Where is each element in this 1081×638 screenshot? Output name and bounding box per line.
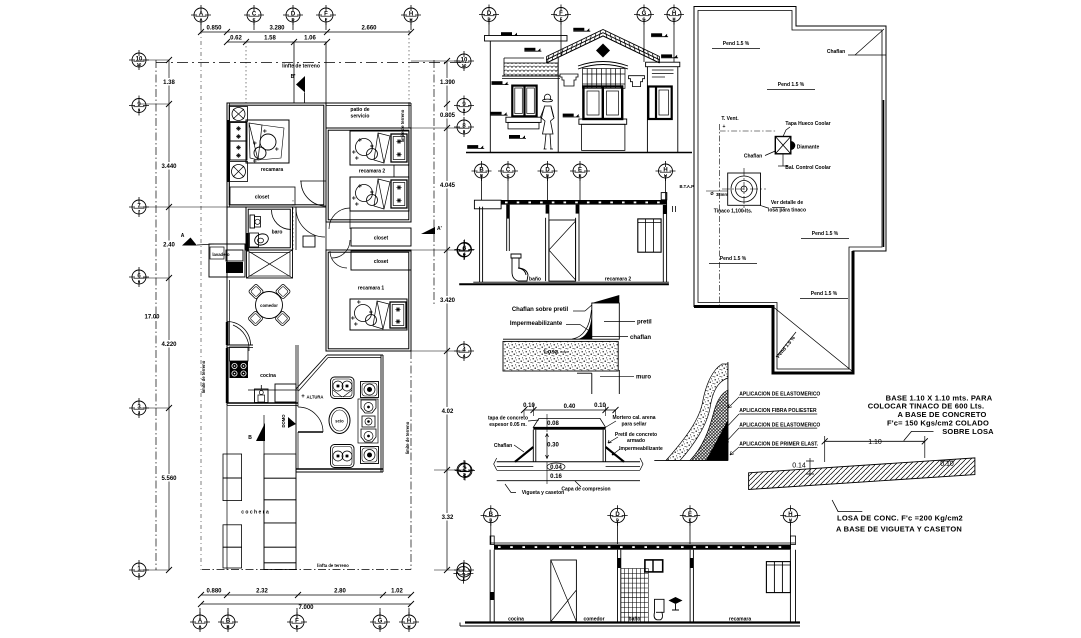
comedor table <box>256 292 283 319</box>
plant symbol <box>669 597 683 604</box>
svg-text:comedor: comedor <box>260 303 278 308</box>
svg-text:3.440: 3.440 <box>161 164 177 170</box>
svg-text:A': A' <box>437 226 442 232</box>
door arc comedor <box>227 322 251 346</box>
waterproofing detail group <box>654 362 994 533</box>
svg-text:Diamante: Diamante <box>797 145 820 151</box>
pretil wall <box>592 303 620 339</box>
svg-text:10: 10 <box>462 63 467 68</box>
svg-text:A: A <box>199 17 202 22</box>
grid axis F leader <box>325 42 327 103</box>
bathroom2 chamfer wall <box>296 355 327 389</box>
svg-text:17.00: 17.00 <box>144 315 160 321</box>
right wall <box>789 550 791 622</box>
cornice tiles left block <box>504 63 558 76</box>
bath (baro) walls <box>246 207 293 250</box>
grid bubble bottom H <box>399 612 419 632</box>
svg-text:Tinaco 1,100 lts.: Tinaco 1,100 lts. <box>714 209 753 215</box>
svg-text:APLICACION DE ELASTOMERICO: APLICACION DE ELASTOMERICO <box>739 392 820 398</box>
hall door arc 1 <box>329 208 350 229</box>
door arc recamara <box>301 181 326 206</box>
bath door arc <box>272 210 292 230</box>
svg-text:1.06: 1.06 <box>304 36 316 42</box>
left block wall <box>489 41 491 152</box>
base line <box>654 459 728 461</box>
svg-text:D: D <box>291 17 294 22</box>
section arrow A <box>182 238 197 246</box>
section bubble D <box>538 161 558 181</box>
svg-text:Mortero cal. arena: Mortero cal. arena <box>612 415 655 421</box>
property line right lower <box>410 351 412 570</box>
svg-text:Impermeabilizante: Impermeabilizante <box>510 321 563 327</box>
svg-text:1.58: 1.58 <box>264 36 276 42</box>
roof diagonal <box>774 308 852 372</box>
leader losa <box>832 500 862 512</box>
window section <box>638 219 661 252</box>
nightstand <box>394 165 409 177</box>
svg-text:4.220: 4.220 <box>161 342 177 348</box>
outer wall left (x=227) <box>226 103 228 405</box>
svg-text:scio: scio <box>335 419 344 424</box>
bottom overall dimension 7.000 <box>201 603 411 605</box>
grid bubble right 6 <box>454 240 474 260</box>
svg-text:0.880: 0.880 <box>206 589 222 595</box>
svg-text:armado: armado <box>627 438 645 444</box>
front elevation group <box>466 5 692 153</box>
svg-text:limite de terreno: limite de terreno <box>201 360 206 393</box>
svg-text:0.10: 0.10 <box>594 403 606 409</box>
svg-text:3.32: 3.32 <box>442 515 454 521</box>
ground line <box>466 152 692 154</box>
hall square symbol <box>303 236 315 247</box>
svg-text:3.420: 3.420 <box>440 298 456 304</box>
bidet b2 <box>362 416 375 427</box>
svg-text:B: B <box>480 173 483 178</box>
recamara block walls <box>227 103 326 207</box>
bed r2b <box>350 177 409 211</box>
svg-text:E: E <box>689 518 692 523</box>
svg-text:B: B <box>226 624 229 629</box>
svg-text:0.08: 0.08 <box>547 421 559 427</box>
grid bubble left 3 <box>129 398 149 418</box>
svg-text:closet: closet <box>255 195 270 201</box>
top dim line <box>524 409 616 411</box>
bottom section group <box>453 505 800 626</box>
svg-text:chaflan: chaflan <box>630 335 651 341</box>
grid axis H leader <box>408 30 410 103</box>
svg-text:Pend 1.5 %: Pend 1.5 % <box>720 256 747 262</box>
svg-text:C: C <box>506 173 509 178</box>
property line top (limite de terreno) <box>156 62 466 64</box>
door panel <box>549 220 576 281</box>
svg-text:Vigueta y caseton: Vigueta y caseton <box>522 490 564 496</box>
svg-text:APLICACION FIBRA POLIESTER: APLICACION FIBRA POLIESTER <box>739 408 817 414</box>
shower X <box>249 253 290 277</box>
break marks <box>494 458 643 470</box>
grid bubble bottom G <box>370 612 390 632</box>
svg-text:A: A <box>181 233 185 239</box>
tick leader lines <box>139 59 169 61</box>
svg-text:comedor: comedor <box>583 617 604 623</box>
svg-text:closet: closet <box>374 259 389 265</box>
svg-text:B: B <box>489 518 492 523</box>
section bubble H <box>656 161 676 181</box>
washer sq top <box>361 382 379 398</box>
svg-text:G: G <box>378 624 381 629</box>
dresser 2 <box>230 141 247 160</box>
grid bubble right 2 <box>454 460 474 480</box>
grid axis D leader <box>293 42 295 103</box>
roof top line <box>503 338 592 340</box>
grid bubble top F <box>316 5 336 25</box>
svg-text:APLICACION DE ELASTOMERICO: APLICACION DE ELASTOMERICO <box>739 422 820 428</box>
recamara 1 block walls <box>326 250 411 351</box>
grid bubble left 1 <box>129 560 149 580</box>
svg-text:cocina: cocina <box>508 617 524 623</box>
svg-text:B: B <box>248 435 252 441</box>
floor plan group <box>129 5 474 632</box>
toilet profile <box>511 254 528 281</box>
roof plan group <box>679 7 886 374</box>
elevation bubble H <box>664 5 684 25</box>
top dimension chain 2 <box>227 41 327 43</box>
window right <box>766 562 790 593</box>
svg-text:APLICACION DE PRIMER ELAST.: APLICACION DE PRIMER ELAST. <box>739 442 819 448</box>
section A-A group <box>455 161 676 284</box>
svg-text:DOMO: DOMO <box>281 414 286 428</box>
svg-text:38mm: 38mm <box>716 192 728 197</box>
tinaco square <box>728 173 761 205</box>
svg-text:E: E <box>579 173 582 178</box>
property line right <box>433 60 435 305</box>
washer dark <box>226 250 243 261</box>
bed r1 <box>350 299 407 330</box>
svg-text:+: + <box>723 124 726 130</box>
svg-text:0.62: 0.62 <box>230 36 242 42</box>
svg-text:Losa: Losa <box>544 350 559 356</box>
svg-text:Pend 1.5 %: Pend 1.5 % <box>811 291 838 297</box>
detail base tinaco group <box>455 403 663 496</box>
gable roof <box>547 30 660 63</box>
bottom dimension chain <box>201 594 411 596</box>
window center <box>583 87 622 120</box>
pipe marks <box>672 206 674 212</box>
svg-text:Chaflan: Chaflan <box>827 49 845 55</box>
svg-text:H: H <box>664 173 667 178</box>
svg-text:losa para tinaco: losa para tinaco <box>768 208 806 214</box>
grid bubble left 6 <box>129 267 149 287</box>
tinaco circles <box>731 176 757 202</box>
bottom section bubble E <box>680 505 700 525</box>
svg-text:tapa de concreto: tapa de concreto <box>488 416 528 422</box>
grid bubble top A <box>191 5 211 25</box>
svg-text:cocina: cocina <box>260 373 276 379</box>
svg-text:G: G <box>642 17 645 22</box>
lavabo double bottom <box>331 445 355 468</box>
muro below <box>591 373 593 394</box>
lavabo double top <box>331 377 355 399</box>
closet 2 walls <box>351 251 411 270</box>
detail chaflan sobre pretil group <box>503 295 652 394</box>
svg-text:F: F <box>325 17 328 22</box>
property line left <box>155 60 157 570</box>
svg-text:patio de: patio de <box>350 107 369 113</box>
toilet b2 second <box>361 429 376 442</box>
roof thick edges <box>694 251 853 373</box>
svg-text:2.660: 2.660 <box>361 26 377 32</box>
tub oval <box>329 408 350 434</box>
svg-text:F: F <box>296 624 299 629</box>
grid bubble right 4 <box>454 341 474 361</box>
tile grid center <box>583 69 626 89</box>
corbel right <box>629 76 645 87</box>
recamara 2 block walls <box>326 128 411 222</box>
svg-text:LOSA DE CONC. F'c =200 Kg/cm2: LOSA DE CONC. F'c =200 Kg/cm2 <box>837 513 963 522</box>
svg-text:2.32: 2.32 <box>256 589 268 595</box>
grid bubble right 9 <box>454 96 474 116</box>
grid bubble top C <box>244 5 264 25</box>
0.04 oval dim <box>547 463 565 471</box>
grid axis C leader <box>245 42 247 103</box>
roof ledge left <box>474 200 501 209</box>
right wall <box>662 205 664 282</box>
bath wall <box>506 205 508 251</box>
pedestal walls <box>532 430 534 462</box>
top dimension chain 1 <box>201 31 411 33</box>
grid bubble top D <box>283 5 303 25</box>
grid bubble bottom F <box>287 612 307 632</box>
roof outline outer <box>694 7 886 374</box>
roof slab dark <box>501 200 667 205</box>
tiled wall bath <box>621 569 649 623</box>
inner elastomeric band <box>690 390 728 460</box>
fan/table circle top-left <box>230 107 248 122</box>
svg-text:A: A <box>198 624 201 629</box>
grid bubble bottom B <box>218 612 238 632</box>
master bed <box>246 120 289 163</box>
door arc recamara1 <box>330 251 347 268</box>
kitchen wall jamb black <box>226 348 229 403</box>
toilet <box>654 599 664 620</box>
wall fill strip recamara <box>228 120 231 182</box>
svg-text:Chaflan sobre pretil: Chaflan sobre pretil <box>512 307 569 313</box>
elevation bubble D <box>479 5 499 25</box>
diamante box <box>775 137 791 154</box>
kitchen counters <box>230 347 249 361</box>
svg-text:2.80: 2.80 <box>334 589 346 595</box>
bed r2a <box>350 131 409 165</box>
kitchen sink <box>255 389 269 403</box>
svg-text:10: 10 <box>137 62 142 67</box>
section bubble E <box>570 161 590 181</box>
svg-text:muro: muro <box>636 375 651 381</box>
grid bubble top H <box>401 5 421 25</box>
toilet b2 <box>361 400 376 413</box>
bottom section bubble D <box>607 505 627 525</box>
floor line section <box>459 283 669 285</box>
wall fill bath <box>246 233 249 252</box>
floor line <box>465 621 800 623</box>
mid wall 2 <box>689 550 691 622</box>
parapet vertical line <box>727 362 729 460</box>
right dimension chain <box>446 61 448 570</box>
hall walls <box>295 207 297 250</box>
property line bottom <box>202 569 411 571</box>
comedor walls <box>227 344 253 346</box>
mid wall 1 <box>617 550 619 622</box>
svg-text:Capa de compresion: Capa de compresion <box>561 487 610 493</box>
kitchen counter bottom row <box>248 389 298 391</box>
svg-text:H: H <box>672 17 675 22</box>
svg-text:A BASE DE VIGUETA Y CASETON: A BASE DE VIGUETA Y CASETON <box>836 524 962 533</box>
grid bubble right 10 <box>454 51 474 71</box>
bathroom2 walls <box>327 354 383 356</box>
toilet bath1 <box>250 215 255 228</box>
dim 1.10 <box>825 440 925 442</box>
leader from text <box>904 431 934 440</box>
svg-text:0.850: 0.850 <box>206 26 222 32</box>
svg-text:baño: baño <box>629 617 641 623</box>
bottom section bubble B <box>481 505 501 525</box>
svg-text:0.805: 0.805 <box>440 113 456 119</box>
sink bath1 <box>250 233 259 247</box>
lavado room walls <box>209 244 245 277</box>
svg-text:servicio: servicio <box>351 114 370 120</box>
svg-text:Bal. Control Coolar: Bal. Control Coolar <box>785 165 831 171</box>
svg-text:H: H <box>407 624 410 629</box>
svg-text:Chaflan: Chaflan <box>494 443 512 449</box>
closet master <box>230 187 295 205</box>
left wall <box>479 207 481 283</box>
roof outline inner <box>698 11 882 370</box>
svg-text:recamara 2: recamara 2 <box>359 169 386 175</box>
svg-text:c o c h e r a: c o c h e r a <box>241 510 269 516</box>
svg-text:Pend 1.5 %: Pend 1.5 % <box>723 41 750 47</box>
slab lines <box>497 461 640 463</box>
chimney stub right <box>661 193 667 200</box>
outer elastomeric band <box>666 364 728 460</box>
svg-text:C: C <box>252 17 255 22</box>
svg-text:D: D <box>616 518 619 523</box>
cochera walls <box>226 405 228 570</box>
cap trapezoid <box>533 418 605 427</box>
losa stipple band <box>503 341 618 371</box>
svg-text:recamara 1: recamara 1 <box>358 286 385 292</box>
cochera squares column <box>223 454 242 478</box>
svg-text:1.38: 1.38 <box>163 80 175 86</box>
svg-text:lavadero: lavadero <box>212 252 230 257</box>
svg-text:limite de terreno: limite de terreno <box>400 109 405 142</box>
svg-text:closet: closet <box>374 236 389 242</box>
shower room walls <box>247 250 293 278</box>
dash-dot interior lines <box>719 124 721 306</box>
grid bubble right 1 <box>454 560 474 580</box>
svg-text:Ver detalle de: Ver detalle de <box>771 200 803 206</box>
parapet cap left block <box>485 36 568 42</box>
sill left window <box>506 117 541 122</box>
section bubble C <box>498 161 518 181</box>
roof slab dark band <box>494 545 791 550</box>
level flags <box>501 32 518 35</box>
closet 1 walls <box>351 228 411 246</box>
door frame <box>545 218 547 281</box>
dresser 1 <box>230 123 247 142</box>
svg-text:B.T.A.P.: B.T.A.P. <box>679 184 694 189</box>
svg-text:H: H <box>789 518 792 523</box>
door arc kitchen top <box>233 325 249 351</box>
section arrow Ap <box>421 227 435 234</box>
svg-text:+: + <box>301 394 305 400</box>
svg-text:linfta de terreno: linfta de terreno <box>317 563 349 568</box>
stove <box>230 361 249 378</box>
svg-text:D: D <box>546 173 549 178</box>
section bubble B <box>472 161 492 181</box>
wall below recamara1 <box>338 350 411 352</box>
left wall <box>489 550 491 622</box>
window right <box>648 87 671 120</box>
door <box>551 560 577 622</box>
svg-text:2.40: 2.40 <box>163 243 175 249</box>
svg-text:SOBRE LOSA: SOBRE LOSA <box>942 427 994 436</box>
svg-text:pretil: pretil <box>637 320 652 326</box>
chaflan fillet <box>572 310 592 339</box>
section bubble left 6 <box>455 240 475 260</box>
detail bubble 2 <box>455 461 475 481</box>
svg-text:7.000: 7.000 <box>298 605 314 611</box>
diamond ornament <box>596 44 610 58</box>
corbel left <box>560 74 578 86</box>
bottom section bubble H <box>780 505 800 525</box>
washer sq bottom <box>361 447 379 464</box>
svg-text:baño: baño <box>529 277 541 283</box>
svg-text:para sellar: para sellar <box>621 422 646 428</box>
grid bubble left 10 <box>129 50 149 70</box>
arched cornice <box>578 62 628 70</box>
sloped slab hatched <box>749 458 975 490</box>
svg-text:recamara: recamara <box>261 167 283 173</box>
roof edge accents <box>883 100 885 247</box>
svg-text:recamara: recamara <box>729 617 751 623</box>
svg-text:Tapa Hueco Coolar: Tapa Hueco Coolar <box>785 121 830 127</box>
door arc bathroom2 <box>298 407 323 432</box>
window left <box>512 86 536 117</box>
section arrow B top <box>296 76 305 93</box>
patio de servicio walls <box>326 102 411 104</box>
svg-text:0.40: 0.40 <box>564 404 576 410</box>
sill center window <box>579 119 627 124</box>
bottom section bubble left 1 <box>453 564 473 584</box>
svg-text:F: F <box>560 17 563 22</box>
grid bubble bottom A <box>190 612 210 632</box>
grid axis A dash-dot <box>200 30 202 570</box>
left dimension chain <box>168 60 170 570</box>
svg-text:5.560: 5.560 <box>161 476 177 482</box>
svg-text:Pend 1.5 %: Pend 1.5 % <box>778 82 805 88</box>
kitchen walls <box>227 402 298 404</box>
svg-text:3.280: 3.280 <box>269 26 285 32</box>
svg-text:limite de terreno: limite de terreno <box>405 421 410 454</box>
hall door arc 2 <box>332 240 350 258</box>
grid bubble left 7 <box>129 197 149 217</box>
svg-text:Chaflan: Chaflan <box>744 154 762 160</box>
svg-text:0.14: 0.14 <box>792 463 806 470</box>
svg-text:1.02: 1.02 <box>391 589 403 595</box>
svg-text:Pend 1.5 %: Pend 1.5 % <box>812 231 839 237</box>
svg-text:0.30: 0.30 <box>547 443 559 449</box>
svg-text:0.16: 0.16 <box>550 474 562 480</box>
svg-text:linfte de terreno: linfte de terreno <box>282 64 320 70</box>
grid bubble right 8 <box>454 117 474 137</box>
